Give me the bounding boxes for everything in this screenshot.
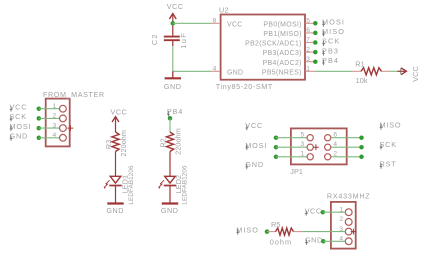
svg-text:VCC: VCC xyxy=(167,2,184,11)
svg-text:MISO: MISO xyxy=(380,121,402,130)
LED LED2 xyxy=(158,165,188,205)
svg-text:VCC: VCC xyxy=(227,21,243,28)
pin 4 of RX433MHZ xyxy=(339,236,352,245)
ground GND (LED2) xyxy=(161,204,179,216)
svg-text:220ohm: 220ohm xyxy=(119,130,128,157)
svg-text:1uF: 1uF xyxy=(179,32,188,49)
origin cross FROM_MASTER xyxy=(68,125,74,131)
node MISO label (JP1 right) xyxy=(380,121,402,130)
svg-text:R5: R5 xyxy=(271,220,281,229)
svg-text:1: 1 xyxy=(306,66,310,73)
svg-text:FROM_MASTER: FROM_MASTER xyxy=(43,90,105,99)
wire LED1 to GND xyxy=(115,186,117,203)
svg-text:2: 2 xyxy=(53,113,57,120)
svg-text:6: 6 xyxy=(333,131,337,138)
node GND label (JP1 left) xyxy=(245,160,264,169)
svg-text:5: 5 xyxy=(301,131,305,138)
svg-text:GND: GND xyxy=(245,160,264,169)
svg-text:1: 1 xyxy=(53,103,57,110)
pin 2 of JP1 (right) xyxy=(325,150,364,160)
svg-text:GND: GND xyxy=(164,82,182,91)
pin 7 PB2(SCK/ADC1) of U2 xyxy=(245,37,315,48)
connector JP1 body xyxy=(290,128,346,176)
pin 3 of RX433MHZ xyxy=(339,226,352,235)
node GND (RX) xyxy=(305,236,345,245)
svg-text:SCK: SCK xyxy=(322,37,340,46)
svg-text:VCC: VCC xyxy=(10,102,28,111)
svg-text:RX433MHZ: RX433MHZ xyxy=(327,192,371,201)
svg-text:C2: C2 xyxy=(150,33,159,45)
ground GND (top left) xyxy=(164,71,182,91)
wire R2 to LED2 xyxy=(169,152,171,177)
svg-text:PB4: PB4 xyxy=(322,56,339,65)
wire VCC to U2 pin 8 xyxy=(173,22,211,24)
IC U2 Tiny85-20-SMT body xyxy=(216,6,305,91)
pin 6 PB1(MISO) of U2 xyxy=(263,27,315,38)
svg-text:MOSI: MOSI xyxy=(245,141,267,150)
resistor R5 xyxy=(270,220,303,247)
svg-text:6: 6 xyxy=(306,27,310,34)
node VCC label (JP1 left) xyxy=(245,121,263,130)
node MOSI label xyxy=(10,122,32,131)
svg-text:2: 2 xyxy=(333,150,337,157)
wire R1 to VCC xyxy=(390,70,400,72)
svg-text:LEDFAB1206: LEDFAB1206 xyxy=(181,165,188,205)
node VCC junction xyxy=(171,21,176,26)
node MISO xyxy=(313,27,345,36)
resistor R2 xyxy=(159,128,183,155)
pin 1 of RX433MHZ xyxy=(339,207,352,216)
node GND label xyxy=(10,132,29,141)
pin 1 of JP1 (left) xyxy=(274,150,314,160)
svg-text:3: 3 xyxy=(301,141,305,148)
svg-text:4: 4 xyxy=(333,141,337,148)
svg-text:3: 3 xyxy=(306,56,310,63)
wire R3 to LED1 xyxy=(115,152,117,177)
node PB4 xyxy=(313,56,339,65)
pin 4 GND of U2 xyxy=(211,66,244,77)
wire U2 pin1 to R1 xyxy=(315,70,352,72)
node MISO (RX) xyxy=(236,225,269,234)
svg-text:GND: GND xyxy=(161,206,179,215)
connector FROM_MASTER body xyxy=(43,90,105,146)
svg-text:VCC: VCC xyxy=(411,66,420,81)
svg-text:Tiny85-20-SMT: Tiny85-20-SMT xyxy=(216,82,273,91)
wire PB4 to R2 xyxy=(169,118,171,132)
resistor R1 xyxy=(352,60,390,85)
origin cross JP1 xyxy=(313,144,319,150)
origin cross RX433MHZ xyxy=(351,229,357,235)
svg-text:RST: RST xyxy=(380,159,397,168)
svg-text:PB1(MISO): PB1(MISO) xyxy=(263,31,301,38)
svg-text:GND: GND xyxy=(106,206,124,215)
svg-text:7: 7 xyxy=(306,37,310,44)
svg-text:JP1: JP1 xyxy=(290,167,303,176)
svg-text:MOSI: MOSI xyxy=(10,122,32,131)
svg-text:5: 5 xyxy=(306,18,310,25)
svg-text:PB0(MOSI): PB0(MOSI) xyxy=(263,21,301,28)
ground GND (LED1) xyxy=(106,204,124,216)
svg-text:R1: R1 xyxy=(355,60,365,69)
pin 2 PB3(ADC3) of U2 xyxy=(263,46,315,57)
svg-text:SCK: SCK xyxy=(380,140,397,149)
svg-text:GND: GND xyxy=(227,69,243,76)
node PB3 xyxy=(313,46,339,55)
node PB4 (LED2 chain) xyxy=(167,107,183,120)
node RST label (JP1 right) xyxy=(380,159,397,168)
svg-text:R2: R2 xyxy=(159,138,168,147)
svg-text:3: 3 xyxy=(53,122,57,129)
svg-text:GND: GND xyxy=(10,132,29,141)
svg-text:PB3: PB3 xyxy=(322,46,339,55)
svg-text:8: 8 xyxy=(213,18,217,25)
pin 3 of JP1 (left) xyxy=(274,141,314,150)
node SCK label xyxy=(10,112,27,121)
power VCC symbol (LED1 chain) xyxy=(111,108,128,126)
svg-text:VCC: VCC xyxy=(245,121,263,130)
svg-text:10k: 10k xyxy=(356,76,368,85)
LED LED1 xyxy=(104,165,136,205)
node VCC (RX) xyxy=(305,207,346,216)
svg-text:MOSI: MOSI xyxy=(322,18,345,27)
wire MISO to R5 xyxy=(267,231,276,233)
capacitor C2 xyxy=(150,26,188,49)
node SCK xyxy=(313,37,340,46)
pin 4 of FROM_MASTER / wire GND xyxy=(37,132,67,141)
svg-text:0ohm: 0ohm xyxy=(270,238,292,247)
svg-text:PB4: PB4 xyxy=(167,107,183,116)
svg-text:LEDFAB1206: LEDFAB1206 xyxy=(128,165,135,205)
connector RX433MHZ body xyxy=(327,192,371,249)
svg-text:GND: GND xyxy=(305,236,323,245)
svg-text:PB2(SCK/ADC1): PB2(SCK/ADC1) xyxy=(245,41,302,48)
wire LED2 to GND xyxy=(169,186,171,203)
svg-text:VCC: VCC xyxy=(305,207,322,216)
pin 3 PB4(ADC2) of U2 xyxy=(263,56,315,67)
pin 1 PB5(NRES) of U2 xyxy=(262,66,315,77)
svg-text:PB5(NRES): PB5(NRES) xyxy=(262,69,302,76)
svg-text:U2: U2 xyxy=(219,6,229,15)
pin 5 PB0(MOSI) of U2 xyxy=(263,18,315,29)
svg-text:PB4(ADC2): PB4(ADC2) xyxy=(263,60,302,67)
svg-text:PB3(ADC3): PB3(ADC3) xyxy=(263,50,302,57)
svg-text:VCC: VCC xyxy=(111,108,128,117)
svg-text:1: 1 xyxy=(301,150,305,157)
pin 2 of FROM_MASTER / wire SCK xyxy=(37,113,67,122)
pin 3 of FROM_MASTER / wire MOSI xyxy=(37,122,67,131)
wire R5 to RX pin 3 xyxy=(303,231,346,233)
wire C2 to GND / U2 pin 4 xyxy=(173,46,211,71)
node VCC label xyxy=(10,102,28,111)
svg-text:4: 4 xyxy=(213,66,217,73)
svg-text:2: 2 xyxy=(339,216,343,223)
pin 6 of JP1 (right) xyxy=(325,131,364,140)
pin 2 of RX433MHZ xyxy=(339,216,352,225)
svg-text:MISO: MISO xyxy=(236,225,259,234)
node SCK label (JP1 right) xyxy=(380,140,397,149)
pin 8 VCC of U2 xyxy=(211,18,243,29)
node MOSI label (JP1 left) xyxy=(245,141,267,150)
pin 1 of FROM_MASTER / wire VCC xyxy=(37,103,67,112)
pin 5 of JP1 (left) xyxy=(274,131,314,140)
svg-text:SCK: SCK xyxy=(10,112,27,121)
svg-text:2: 2 xyxy=(306,46,310,53)
svg-text:220ohm: 220ohm xyxy=(174,128,183,155)
node MOSI xyxy=(313,18,345,27)
svg-text:MISO: MISO xyxy=(322,27,345,36)
svg-text:4: 4 xyxy=(53,132,57,139)
svg-text:R3: R3 xyxy=(104,140,113,149)
resistor R3 xyxy=(104,130,128,157)
power VCC symbol (top left) xyxy=(167,2,184,22)
wire VCC to R3 xyxy=(115,125,117,132)
power VCC symbol (right) xyxy=(398,66,420,81)
pin 4 of JP1 (right) xyxy=(325,141,364,150)
